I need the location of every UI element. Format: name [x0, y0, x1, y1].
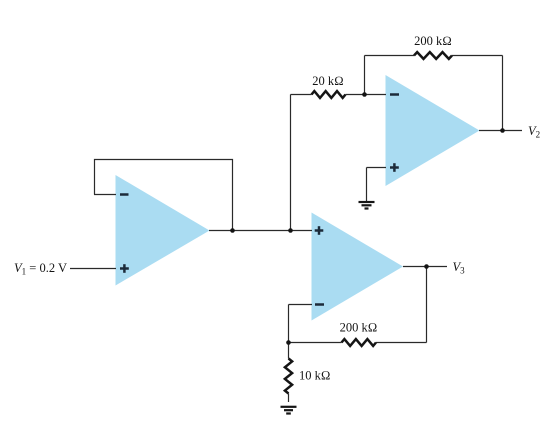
svg-text:200 kΩ: 200 kΩ: [340, 321, 378, 335]
svg-text:200 kΩ: 200 kΩ: [414, 34, 452, 48]
svg-text:20 kΩ: 20 kΩ: [312, 74, 343, 88]
svg-text:V2: V2: [528, 124, 540, 140]
svg-text:V1 = 0.2 V: V1 = 0.2 V: [14, 261, 67, 277]
svg-text:10 kΩ: 10 kΩ: [299, 369, 330, 383]
svg-text:V3: V3: [453, 260, 466, 276]
